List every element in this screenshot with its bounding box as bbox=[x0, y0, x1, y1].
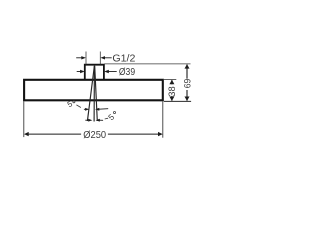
svg-text:G1/2: G1/2 bbox=[112, 54, 135, 65]
angle arrow upper-right bbox=[95, 108, 108, 111]
extension line 38 top bbox=[164, 79, 176, 81]
angle arrow upper-left bbox=[84, 108, 89, 111]
leader left 5deg bbox=[76, 105, 81, 108]
G1/2 extension tick right bbox=[99, 52, 101, 65]
svg-text:Ø250: Ø250 bbox=[83, 130, 106, 141]
extension line bottom right bbox=[164, 100, 191, 102]
axis line left tilt bbox=[87, 66, 94, 121]
stem (connector) bbox=[85, 65, 104, 81]
svg-text:69: 69 bbox=[183, 79, 194, 89]
svg-text:38: 38 bbox=[167, 86, 178, 96]
extension line 250 right bbox=[162, 102, 164, 138]
dim line 38 bbox=[169, 80, 174, 101]
angle arrow lower-left bbox=[85, 119, 92, 122]
angle arrow lower-right bbox=[96, 119, 104, 122]
extension line 250 left bbox=[23, 102, 25, 138]
G1/2 right arrow bbox=[100, 56, 111, 59]
dim line 69 bbox=[185, 64, 190, 101]
G1/2 left arrow bbox=[76, 56, 86, 59]
G1/2 extension tick left bbox=[85, 52, 87, 65]
diam39 left arrow bbox=[77, 70, 85, 73]
axis line right tilt bbox=[95, 66, 98, 121]
plate body (shower head disc, side view) bbox=[24, 80, 163, 101]
axis line center bbox=[93, 66, 95, 122]
dim line 250 bbox=[24, 132, 163, 136]
extension line 69 top bbox=[104, 63, 190, 65]
svg-text:Ø39: Ø39 bbox=[119, 67, 135, 78]
leader right 5deg bbox=[105, 117, 108, 120]
diam39 right arrow bbox=[104, 70, 117, 73]
